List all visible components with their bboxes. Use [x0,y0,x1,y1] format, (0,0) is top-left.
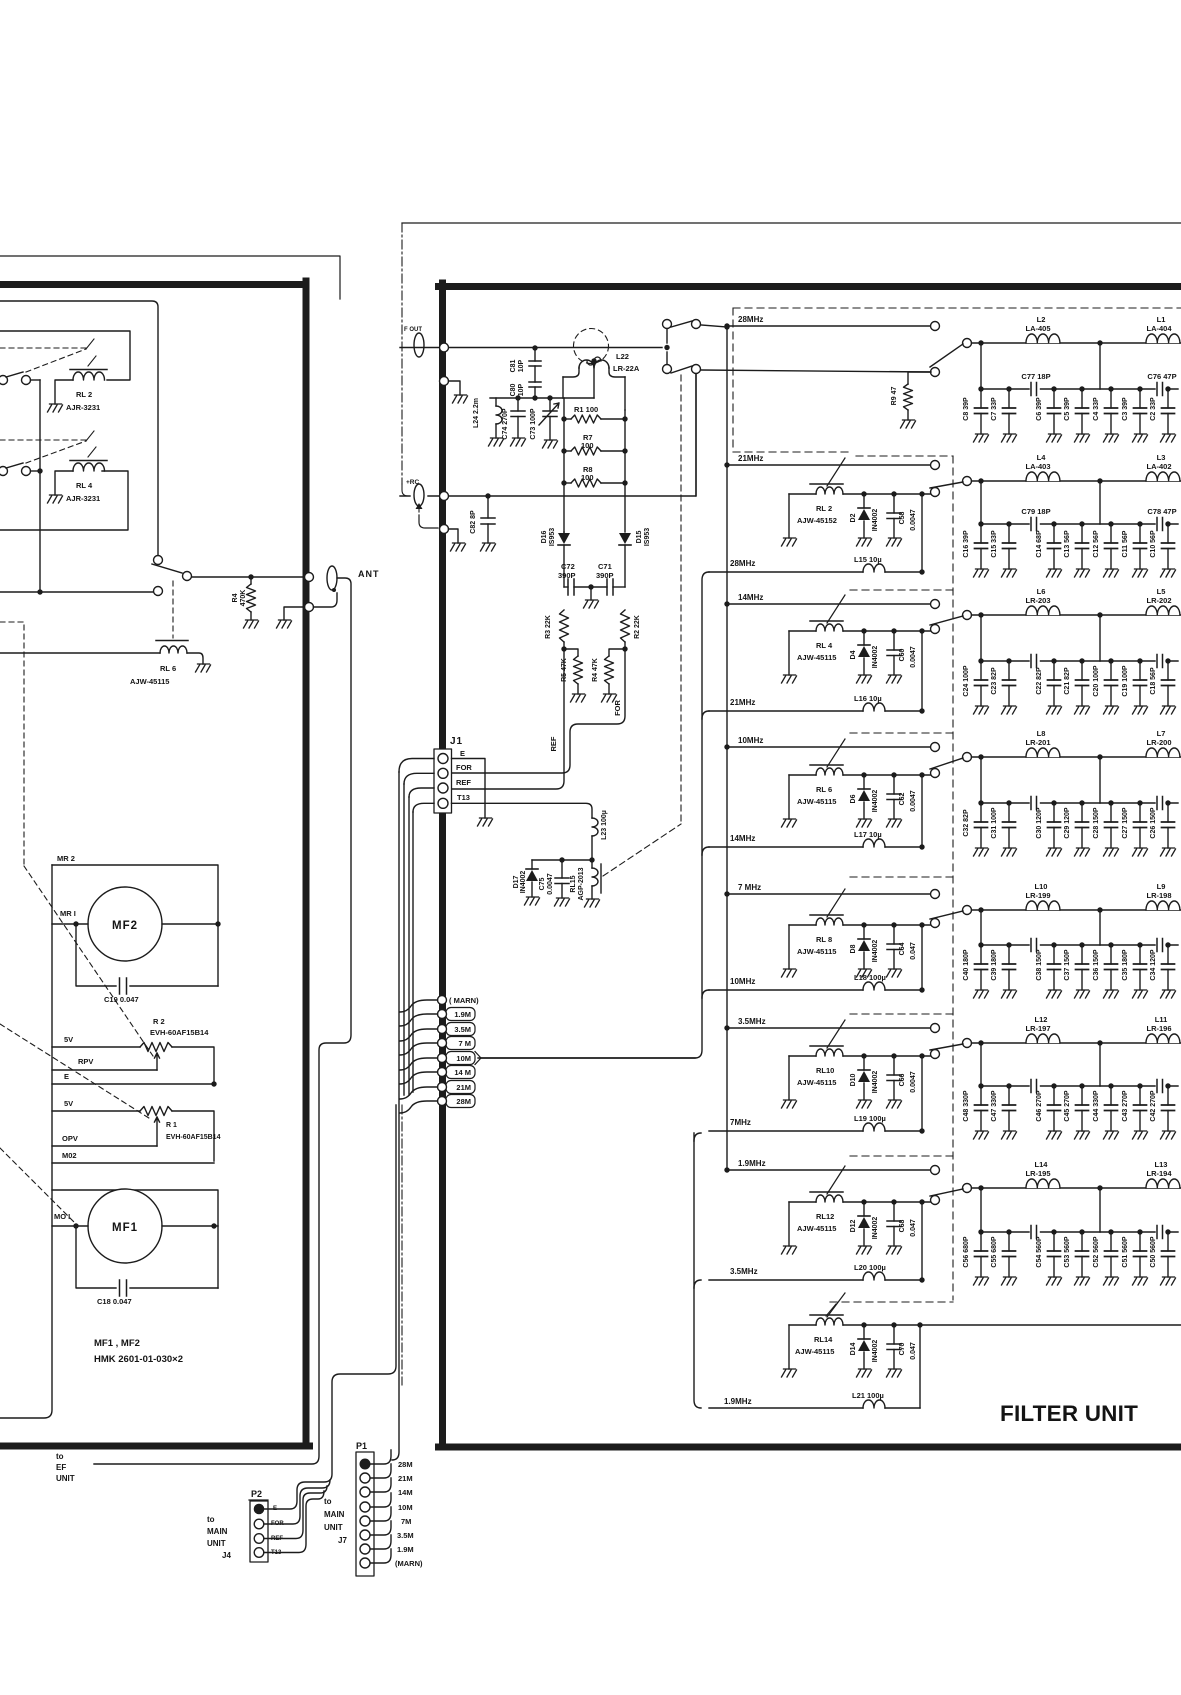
svg-text:AJW-45115: AJW-45115 [795,1347,834,1356]
svg-text:J1: J1 [450,736,463,747]
svg-text:C62: C62 [899,792,906,805]
svg-text:C72: C72 [561,562,575,571]
svg-text:L17 10µ: L17 10µ [854,830,882,839]
motor MF2 [88,887,162,961]
svg-text:AJW-45115: AJW-45115 [797,797,836,806]
svg-text:( MARN): ( MARN) [449,996,479,1005]
P2 connector body [250,1501,268,1562]
right unit thick border [439,283,1181,1447]
svg-text:0.047: 0.047 [910,942,917,960]
svg-text:RL15: RL15 [570,875,577,892]
band tag wire 21M [400,1087,438,1099]
svg-text:C66: C66 [899,1073,906,1086]
svg-text:LR-201: LR-201 [1025,738,1050,747]
svg-text:C40 180P: C40 180P [963,949,970,980]
choke L15 10&#181; [709,571,863,573]
capacitor C29 120P [1079,800,1084,805]
capacitor C37 150P [1079,942,1084,947]
resistor R4 47K [622,646,627,651]
svg-text:C50 560P: C50 560P [1150,1236,1157,1267]
inductor L11 LR-196 [1146,1033,1180,1043]
svg-text:L21 100µ: L21 100µ [852,1391,884,1400]
svg-text:21M: 21M [398,1474,413,1483]
inductor L1 LA-404 [1146,333,1180,343]
switch S1a circles [663,320,672,329]
left rail [563,398,565,532]
MF1 bottom with C18 [76,1226,218,1288]
ANT feedthrough oval [327,566,337,590]
inductor L5 LR-202 [1146,605,1180,615]
svg-text:RL 4: RL 4 [76,481,93,490]
relay RL4 contact circles [0,467,8,476]
linkage slash row4 [827,739,845,767]
svg-text:470K: 470K [240,590,247,607]
svg-text:C7 33P: C7 33P [991,397,998,421]
row5 relay output riser [919,922,924,927]
svg-text:LR-200: LR-200 [1146,738,1171,747]
svg-text:28M: 28M [398,1460,413,1469]
band tag 7 M [446,1037,475,1050]
svg-text:C32 82P: C32 82P [963,809,970,837]
svg-text:F OUT: F OUT [404,327,422,333]
svg-text:C29 120P: C29 120P [1064,807,1071,838]
wire RL2 contact to bus [31,379,41,381]
MF1 right wire [162,1225,218,1227]
row4 input terminal circle [931,743,940,752]
svg-text:0.047: 0.047 [910,1219,917,1237]
diode D14 IN4002 [861,1322,866,1327]
relay RL14 coil [810,1314,843,1316]
inductor L23 100u [592,818,598,836]
svg-text:D12: D12 [850,1219,857,1232]
svg-text:C53 560P: C53 560P [1064,1236,1071,1267]
svg-text:R1 100: R1 100 [574,405,598,414]
capacitor C44 330P [1108,1083,1113,1088]
row3 input terminal circle [931,600,940,609]
row6 series capacitor left [1031,1080,1037,1093]
capacitor C18 0.047 [120,1280,127,1296]
svg-text:EVH-60AF15B14: EVH-60AF15B14 [150,1028,209,1037]
node line y398 [490,397,594,399]
band tag wire 7 M [400,1043,438,1055]
svg-text:28M: 28M [456,1097,471,1106]
svg-text:C51 560P: C51 560P [1122,1236,1129,1267]
left bus vertical [0,865,52,1418]
row3 switch blade [930,616,963,625]
capacitor C38 150P [1051,942,1056,947]
row boundary dashes 5 [850,876,953,878]
svg-text:RL 6: RL 6 [160,664,176,673]
capacitor C23 82P [1006,658,1011,663]
RL12 ground lead [788,1202,790,1246]
row6 input terminal circle [931,1024,940,1033]
resistor R4 470K [250,577,252,584]
svg-text:0.0047: 0.0047 [910,790,917,812]
svg-text:IN4002: IN4002 [872,1340,879,1363]
svg-text:28MHz: 28MHz [730,559,755,568]
ANT terminal circles on border [305,573,314,582]
inductor L4 LA-403 [1026,471,1060,481]
svg-text:C64: C64 [899,942,906,955]
relay RL2 coil [73,372,105,380]
svg-text:IN4002: IN4002 [872,509,879,532]
row4 switch blade [930,758,963,769]
svg-text:LR-194: LR-194 [1146,1169,1172,1178]
svg-text:C60: C60 [899,648,906,661]
svg-text:IS953: IS953 [549,528,556,546]
row5 switch circles [931,919,940,928]
P2 wires to main unit [264,1105,396,1509]
svg-text:28MHz: 28MHz [738,315,763,324]
svg-text:C30 120P: C30 120P [1036,807,1043,838]
+RC oval shield link [418,509,420,515]
row7 relay output riser [919,1199,924,1204]
RL4 switch blade [6,463,23,468]
choke L18 100&#181; [709,989,863,991]
svg-text:C79 18P: C79 18P [1021,507,1050,516]
linkage slash row7 [827,1166,845,1194]
svg-text:1.9MHz: 1.9MHz [724,1397,752,1406]
row3 relay output riser [919,628,924,633]
REF wire to J1 [451,649,564,789]
capacitor C16 39P [978,521,983,526]
svg-text:EVH-60AF15B14: EVH-60AF15B14 [166,1134,221,1141]
svg-text:AJW-45115: AJW-45115 [130,677,169,686]
row4 switch circles [931,769,940,778]
svg-text:to: to [207,1515,215,1524]
capacitor C3 39P [1137,386,1142,391]
row4 series capacitor right [1157,797,1163,810]
J1 wires to cable bundle [399,759,434,773]
svg-text:14 M: 14 M [454,1068,471,1077]
P1 pin 28M [360,1459,370,1469]
svg-text:C81: C81 [510,359,517,372]
svg-text:C55 680P: C55 680P [991,1236,998,1267]
relay RL6 coil [810,764,843,766]
RL8 ground lead [788,925,790,969]
svg-text:AJW-45152: AJW-45152 [797,516,837,525]
output riser branches [702,711,709,719]
row5 series capacitor right [1157,939,1163,952]
diode D15 IS953 [619,544,631,546]
capacitor C14 68P [1051,521,1056,526]
svg-text:L22: L22 [616,352,629,361]
row1 switch circles [931,368,940,377]
capacitor C51 560P [1137,1229,1142,1234]
svg-text:MF2: MF2 [112,920,138,932]
svg-text:M02: M02 [62,1151,77,1160]
capacitor C62 0.0047 [891,772,896,777]
row1 cap bus [981,343,1100,389]
linkage slash row2 [827,458,845,486]
wire y592 [0,591,153,593]
svg-text:UNIT: UNIT [207,1539,226,1548]
relay RL2 coil [810,483,843,485]
band tag wire 10M [400,1058,438,1070]
junction row [532,859,592,861]
relay RL2 contact circles [0,376,8,385]
MF2 box top [52,865,218,986]
main line from F OUT [400,347,662,349]
band switch linkage dash vertical [680,375,682,824]
inductor L6 LR-203 [1026,605,1060,615]
svg-text:C71: C71 [598,562,612,571]
capacitor C12 56P [1108,521,1113,526]
row5 filter line [972,909,1181,911]
diode D17 IN4002 [531,860,533,869]
svg-text:L16 10µ: L16 10µ [854,694,882,703]
capacitor C45 270P [1079,1083,1084,1088]
svg-text:390P: 390P [596,571,614,580]
svg-text:L20 100µ: L20 100µ [854,1263,886,1272]
svg-text:7M: 7M [401,1517,411,1526]
svg-text:MO I: MO I [54,1212,70,1221]
capacitor C8 39P [978,386,983,391]
svg-text:L11: L11 [1155,1015,1168,1024]
inductor L10 LR-199 [1026,900,1060,910]
relay RL4 coil [810,620,843,622]
svg-text:D15: D15 [636,530,643,543]
capacitor C47 330P [1006,1083,1011,1088]
row6 filter line [972,1042,1181,1044]
RL2 switch blade [6,372,23,377]
capacitor C28 150P [1108,800,1113,805]
svg-text:D10: D10 [850,1073,857,1086]
svg-text:C56 680P: C56 680P [963,1236,970,1267]
capacitor C4 33P [1108,386,1113,391]
P1 pin 10M [360,1502,370,1512]
svg-text:5V: 5V [64,1099,73,1108]
inductor L24 2.2m [495,398,497,406]
svg-text:21MHz: 21MHz [738,454,763,463]
svg-text:C5 39P: C5 39P [1064,397,1071,421]
capacitor C60 0.0047 [891,628,896,633]
svg-text:C54 560P: C54 560P [1036,1236,1043,1267]
linkage slash row3 [827,595,845,623]
svg-text:C70: C70 [899,1342,906,1355]
capacitor C18 56P [1165,658,1170,663]
P2 pin T13 [254,1548,264,1558]
relay RL6 coil [156,640,188,642]
row8 output riser [917,1322,922,1327]
svg-text:C48 330P: C48 330P [963,1090,970,1121]
svg-text:C26 150P: C26 150P [1150,807,1157,838]
svg-text:C76 47P: C76 47P [1147,372,1176,381]
+RC rail [400,374,696,496]
mech dash MF2 to pot R2 [24,866,153,1056]
P1 pin 14M [360,1487,370,1497]
MF2 bottom with C19 [76,924,218,986]
svg-text:LR-196: LR-196 [1146,1024,1171,1033]
relay RL12 coil [810,1191,843,1193]
row3 cap bus [981,615,1100,661]
svg-text:C23 82P: C23 82P [991,667,998,695]
svg-text:L13: L13 [1155,1160,1168,1169]
capacitor C66 0.0047 [891,1053,896,1058]
dashed vertical separator [952,456,954,1300]
svg-text:LR-202: LR-202 [1146,596,1171,605]
P2 pin REF [254,1534,264,1544]
svg-text:C45 270P: C45 270P [1064,1090,1071,1121]
row1 series capacitor left [1031,383,1037,396]
row boundary dashes 7 [850,1155,953,1157]
inductor L13 LR-194 [1146,1178,1180,1188]
row1 input terminal circle [931,322,940,331]
svg-text:AGP-2013: AGP-2013 [578,867,585,900]
band tag wire 14 M [400,1072,438,1084]
svg-text:7 M: 7 M [458,1039,471,1048]
svg-text:LR-195: LR-195 [1025,1169,1050,1178]
MF1 left wire [52,1225,88,1227]
row7 switch circles [931,1196,940,1205]
ANT switch circles [154,556,163,565]
P2 pin FOR [254,1519,264,1529]
svg-text:L15 10µ: L15 10µ [854,555,882,564]
svg-text:C75: C75 [539,877,546,890]
right unit outer shield left (dash-dot) [401,223,403,484]
resistor R5 47K [561,646,566,651]
svg-text:C21 82P: C21 82P [1064,667,1071,695]
J1 E ground [452,759,486,819]
svg-text:L1: L1 [1157,315,1166,324]
svg-text:3.5MHz: 3.5MHz [738,1017,766,1026]
output riser left [478,572,709,1058]
svg-text:D16: D16 [541,530,548,543]
svg-text:AJW-45115: AJW-45115 [797,653,836,662]
svg-text:L18 100µ: L18 100µ [854,973,886,982]
row boundary dashes 6 [850,1013,953,1015]
row1 filter line [972,342,1181,344]
svg-text:10M: 10M [456,1054,471,1063]
svg-text:P1: P1 [356,1441,367,1451]
svg-text:LR-199: LR-199 [1025,891,1050,900]
svg-text:390P: 390P [558,571,576,580]
band input bus [726,327,728,1170]
capacitor C34 120P [1165,942,1170,947]
S1b blade [671,366,692,373]
MF1 box top [52,1190,218,1288]
svg-text:MR 2: MR 2 [57,854,75,863]
svg-text:1.9M: 1.9M [397,1545,414,1554]
svg-text:FOR: FOR [613,700,622,716]
svg-text:to: to [324,1497,332,1506]
svg-text:L4: L4 [1037,453,1047,462]
svg-text:3.5M: 3.5M [397,1531,414,1540]
P1 pin 21M [360,1473,370,1483]
row8 dashed boundary [830,1301,953,1303]
capacitor C24 100P [978,658,983,663]
svg-text:10MHz: 10MHz [730,977,755,986]
P1 wires [371,1450,392,1464]
svg-text:L7: L7 [1157,729,1166,738]
svg-text:C27 150P: C27 150P [1122,807,1129,838]
choke L20 100&#181; [709,1279,863,1281]
svg-text:J7: J7 [338,1536,347,1545]
linkage slash row5 [827,889,845,917]
output riser lower [694,1133,701,1141]
band tag wire MARN [400,1000,438,1012]
transformer L22 shield dashed circle [574,329,609,364]
linkage slash row8 [827,1293,845,1317]
svg-text:3.5MHz: 3.5MHz [730,1267,758,1276]
P1 pin 7M [360,1516,370,1526]
filter rows dashed enclosure row1 [733,308,1181,452]
row2 filter line [972,480,1181,482]
svg-text:L2: L2 [1037,315,1046,324]
capacitor C26 150P [1165,800,1170,805]
svg-text:0.0047: 0.0047 [910,509,917,531]
band tag 10M [446,1052,475,1065]
capacitor C58 0.0047 [891,491,896,496]
right rail [624,410,626,532]
svg-text:LR-22A: LR-22A [613,364,640,373]
RL4 box wiring [0,471,128,530]
capacitor C53 560P [1079,1229,1084,1234]
svg-text:R 2: R 2 [153,1017,165,1026]
svg-text:to: to [56,1452,64,1461]
choke L21 100u [709,1407,863,1409]
svg-text:L24 2.2m: L24 2.2m [473,398,480,428]
svg-text:L5: L5 [1157,587,1166,596]
capacitor C52 560P [1108,1229,1113,1234]
row7 input line 1.9MHz [727,1169,930,1171]
svg-text:E: E [64,1072,69,1081]
capacitor C5 39P [1079,386,1084,391]
relay RL10 coil [810,1045,843,1047]
svg-text:C6 39P: C6 39P [1036,397,1043,421]
capacitor C22 82P [1051,658,1056,663]
svg-text:EF: EF [56,1463,66,1472]
svg-text:IN4002: IN4002 [872,1071,879,1094]
wire S1b to row1 switch [701,370,931,372]
svg-text:C10 56P: C10 56P [1150,530,1157,558]
svg-text:D2: D2 [850,513,857,522]
svg-text:R9 47: R9 47 [891,387,898,406]
trimmer C73 100P [549,398,551,411]
potentiometer R1 [140,1107,172,1116]
svg-text:10MHz: 10MHz [738,736,763,745]
left unit thick border [0,281,310,1446]
svg-text:MF1 , MF2: MF1 , MF2 [94,1338,140,1349]
diode D4 IN4002 [861,628,866,633]
row4 input line 10MHz [727,746,930,748]
S1b pole stub [666,352,668,364]
svg-text:R4: R4 [232,593,239,602]
capacitor C43 270P [1137,1083,1142,1088]
svg-text:RL12: RL12 [816,1212,834,1221]
row2 switch blade [930,482,963,488]
svg-text:L14: L14 [1035,1160,1049,1169]
svg-text:C18 0.047: C18 0.047 [97,1297,132,1306]
J1 pin REF [438,783,448,793]
svg-text:IN4002: IN4002 [520,871,527,894]
RL10 ground lead [788,1056,790,1100]
svg-text:C74 270P: C74 270P [502,408,509,439]
svg-text:MAIN: MAIN [324,1510,345,1519]
svg-text:R3 22K: R3 22K [545,615,552,639]
svg-text:E: E [460,749,465,758]
inductor L8 LR-201 [1026,747,1060,757]
row6 input line 3.5MHz [727,1027,930,1029]
capacitor C54 560P [1051,1229,1056,1234]
svg-text:D8: D8 [850,944,857,953]
row6 cap bus [981,1043,1100,1086]
svg-text:IN4002: IN4002 [872,940,879,963]
svg-text:D4: D4 [850,650,857,659]
svg-text:C78 47P: C78 47P [1147,507,1176,516]
row1 input line 28MHz [727,325,930,327]
svg-text:FOR: FOR [456,763,472,772]
